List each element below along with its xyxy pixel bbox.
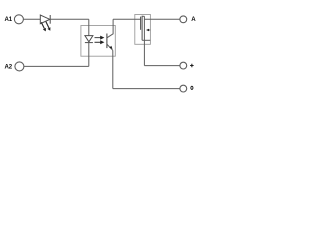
emitter arrow head [109,46,112,49]
terminal A2 [15,62,24,71]
terminal A1 [14,15,23,24]
MOSFET arrow head [146,29,149,32]
coupling arrow head 2 [100,40,104,44]
terminal plus [180,62,187,69]
LED D1 cathode bar [49,15,51,24]
wire A2 [24,65,89,67]
LED D1 emission arrow 1 head [43,28,46,32]
wire emitter to terminal 0 [113,88,180,90]
terminal 0 [180,85,187,92]
LED D1 emission arrow 1 shaft [41,22,44,28]
svg-text:A1: A1 [4,16,12,23]
terminal A [180,16,187,23]
svg-text:A: A [191,16,196,23]
wire LED D1 to optocoupler [50,18,89,20]
label 0 [190,86,193,90]
LED D1 triangle [40,15,50,24]
wire collector to MOSFET gate [113,18,141,20]
coupling arrow shafts [95,38,101,43]
MOSFET source stub [142,39,150,41]
MOSFET gate bar [140,17,142,30]
wire A1 to LED D1 [23,18,40,20]
wire emitter down [112,50,114,88]
MOSFET drain stub [142,15,144,17]
optocoupler LED cathode bar [85,42,93,44]
phototransistor emitter diagonal [107,44,113,50]
MOSFET box Q1 [135,15,151,45]
optocoupler box U1 [81,26,115,57]
coupling arrow head 1 [100,36,104,40]
svg-text:A2: A2 [4,64,12,71]
MOSFET body arrow shaft [149,29,151,31]
label plus [190,64,194,68]
optocoupler LED triangle [85,36,93,42]
wire to terminal plus [144,65,180,67]
phototransistor base bar [106,34,108,49]
wire optocoupler cathode down to A2 rail [88,43,90,67]
LED D1 emission arrow 2 shaft [46,22,49,28]
wire drop into optocoupler [88,19,90,35]
MOSFET rail down to terminal plus [143,16,145,65]
MOSFET channel bar [141,16,143,41]
phototransistor collector [107,19,113,37]
LED D1 emission arrow 2 head [47,27,50,31]
wire rail to terminal A [144,18,180,20]
